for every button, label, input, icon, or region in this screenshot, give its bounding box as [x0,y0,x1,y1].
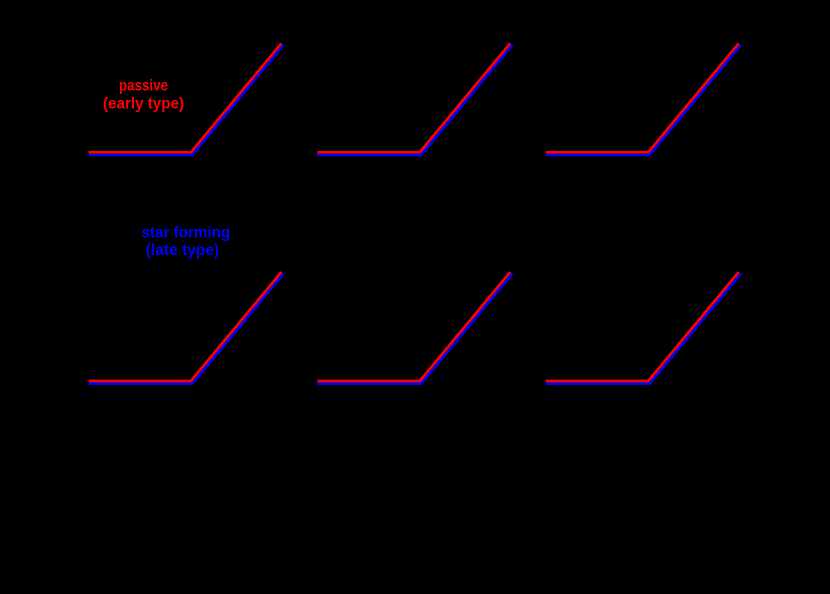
panel 2 (top-middle): red passive curve [317,43,510,152]
panel 3 (top-right): blue star-forming curve [546,45,741,155]
panel 1 (top-left): red passive curve [89,43,282,152]
panel 5 (bottom-middle): red passive curve [317,272,510,381]
svg-text:star forming: star forming [142,225,231,242]
panel 5 (bottom-middle): blue star-forming curve [317,274,512,384]
panel 2 (top-middle): blue star-forming curve [317,45,512,155]
panel 4 (bottom-left): blue star-forming curve [89,274,284,384]
svg-text:(early type): (early type) [103,96,184,113]
svg-text:(late type): (late type) [146,242,219,259]
panel 1 (top-left): blue star-forming curve [89,45,284,155]
panel 6 (bottom-right): red passive curve [546,272,739,381]
svg-text:passive: passive [119,78,168,95]
panel 3 (top-right): red passive curve [546,43,739,152]
panel 6 (bottom-right): blue star-forming curve [546,274,741,384]
panel 4 (bottom-left): red passive curve [89,272,282,381]
